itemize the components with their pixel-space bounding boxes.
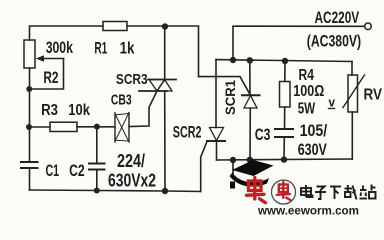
capacitor C2 [89,127,105,191]
wire pot bottom lead [29,68,31,162]
resistor R3 [50,122,77,131]
svg-text:www.eeworm.com: www.eeworm.com [257,206,359,218]
svg-text:C1: C1 [46,161,60,180]
svg-text:(AC380V): (AC380V) [307,32,361,51]
svg-text:SCR3: SCR3 [116,71,148,88]
wire AC feed [233,26,365,60]
wire R3 right to diac [77,126,115,128]
svg-text:C2: C2 [69,161,85,180]
svg-text:R4: R4 [299,67,314,84]
logo text dianzi xiazaizhan [301,185,376,200]
varistor RV [343,75,365,159]
svg-text:100Ω: 100Ω [293,83,324,100]
wire R3 left [29,126,50,128]
svg-text:224/: 224/ [117,151,145,171]
glyph dian [301,185,313,197]
svg-text:105/: 105/ [300,121,328,140]
glyph zhan [360,185,376,199]
node wiper junction [26,86,32,92]
node R3 left junction [26,124,32,130]
node SCR1 bottom junction [247,157,253,163]
node SCR2 cathode junction [230,157,236,163]
node SCR3 bottom junction [162,188,168,194]
diac CB3 [115,113,129,142]
svg-text:SCR2: SCR2 [173,123,202,142]
logo watermark cap [230,160,274,189]
logo worm glyph 2 [277,182,291,201]
glyph zi [315,187,326,200]
capacitor C3 [275,129,293,160]
svg-text:SCR1: SCR1 [223,80,238,115]
svg-text:R1: R1 [94,39,107,58]
svg-text:10k: 10k [68,102,90,119]
svg-text:RV: RV [364,87,383,104]
wire SCR1 gate horizontal [199,77,250,94]
triac SCR3 [139,80,176,92]
thyristor SCR1 [242,60,260,160]
svg-text:CB3: CB3 [111,92,132,109]
resistor R4 [280,61,291,129]
terminal AC220V [365,23,372,30]
wire bottom-right bus y160 [217,159,353,160]
svg-text:v: v [329,95,336,110]
node R1-SCR3 top junction [162,23,168,29]
svg-text:630Vx2: 630Vx2 [108,171,156,191]
wire stub below node to logo [232,160,234,178]
wire SCR2 anode [215,60,217,128]
thyristor SCR2 [201,128,225,192]
svg-text:R2: R2 [43,68,58,87]
logo circle [272,180,296,204]
svg-text:AC220V: AC220V [315,8,360,27]
potentiometer R2 body [24,40,35,68]
svg-text:C3: C3 [255,125,271,144]
node C3 bottom junction [281,156,287,162]
svg-text:300k: 300k [46,38,74,57]
wire wiper loop [30,59,64,90]
svg-text:1k: 1k [120,39,135,58]
wire bottom rail [30,190,201,192]
node C2 bottom junction [94,188,100,194]
wire SCR3 anode [164,27,166,80]
wiper arrow R2 [43,58,64,60]
logo worm glyph 1 [247,178,266,203]
svg-text:R3: R3 [41,102,58,119]
wire R1 right to corner down [127,26,199,77]
wire node bus y60 [216,60,352,62]
node C2 top junction [94,124,100,130]
wire RV top lead [351,62,353,76]
wire diac to SCR3 gate [129,91,157,127]
svg-text:5W: 5W [298,101,316,118]
glyph zai [344,185,357,200]
node AC junction [230,57,236,63]
node SCR1 top junction [247,57,253,63]
wire top-left horizontal [30,26,104,40]
wire SCR3 bottom lead [164,91,166,191]
node R4 top junction [282,58,288,64]
resistor R1 [103,22,127,31]
glyph xia [330,187,341,200]
capacitor C1 [21,162,38,190]
svg-text:630V: 630V [298,140,328,159]
